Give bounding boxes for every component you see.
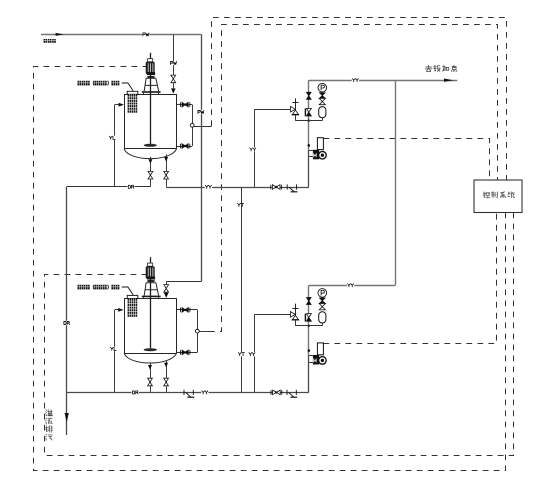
tank T2 dished bottom [124,353,177,363]
pipe: drain header DR from T1 bottom [67,186,151,188]
suction drop P1 [308,150,310,187]
agitator stand (lantern) T2 [144,283,158,296]
signal wire: LG2 level signal to control box top [209,25,498,332]
pipe: PW drop to T1 inlet valve [173,34,175,75]
second isolation valve with handle on P1 riser [305,109,306,117]
pipe: crossover from T1 suction to bottom header [241,187,243,392]
Y-strainer on header [183,390,185,395]
agitator shaft T2 [150,257,152,348]
pump station P1: discharge riser [308,80,310,150]
Y-strainer P1 [286,184,288,189]
stub into T2 [115,309,119,311]
T2 bottom outlet legs with valves [150,363,152,393]
valve V2 on T2 water inlet [164,285,169,293]
level gauge LG1: upper tap [177,104,193,106]
gauge isolation diaphragm+valve P2 [320,298,326,303]
label 溢流排污 (overflow blowdown), vertical [46,410,53,416]
label 去投加点 (to dosing point) [425,65,432,71]
pipe: P1 discharge header to dosing point [309,80,458,82]
metering pump P1 [308,144,311,147]
stub into T1 [115,104,120,106]
Y-strainer P2 [286,390,288,395]
pipe: horizontal to T2 inlet valve [166,281,201,283]
agitator stand (lantern) T1 [144,78,158,91]
wire segment to T1 top [173,83,175,89]
impeller T1 [144,144,157,147]
pipe: PW drop to T2 (crosses suction line) [201,34,203,281]
pipe YL upper segment (T1 nozzle to drain header) [114,105,116,187]
flow arrow into T1 [171,88,176,93]
pipe: industrial water header PW [41,34,201,36]
metering pump P2 [308,349,311,352]
P1 manifold [295,120,322,122]
signal wire: control box to agitator M2 (perimeter route) [45,213,514,456]
level gauge LG1: standpipe and float chamber [192,105,194,146]
flow arrow PW [56,33,64,36]
pipe DR drop on far left [66,187,68,435]
signal wire: control box to agitator M1 (perimeter route) [34,67,506,471]
level gauge LG2: upper tap [177,309,197,311]
pulsation dampener P2 [319,312,326,323]
motor flange T2 [147,280,154,282]
suction drop P2 [308,355,310,392]
signal wire: metering pump P1 to control box [323,139,489,181]
pressure gauge PI P1 [318,83,327,92]
signal wire: metering pump P2 to control box [323,213,496,344]
label 絮凝剂加药口 with leader (T1) [77,80,123,86]
suction valve P2 [273,390,281,395]
pulsation dampener P1 [319,107,326,118]
tank T2: vessel body [124,257,177,363]
valve V1 on T1 water inlet [171,75,176,83]
label 控制系统 (control system) [483,192,490,198]
valve on P2 discharge riser [307,298,312,305]
valve on P1 discharge riser [307,92,312,99]
relief return line P2 [254,314,290,316]
pump station P2: discharge riser [308,285,310,355]
impeller T2 [144,348,157,351]
flow arrow into T1 side nozzle [119,103,124,107]
motor flange T1 [147,76,154,78]
mounting base plate T2 [142,296,161,298]
agitator shaft T1 [150,53,152,144]
control system box 控制系统 [474,180,522,213]
wire: level gauge LG1 to signal riser [194,126,212,128]
pressure gauge PI P2 [318,289,327,298]
pipe: bottom suction/drain header [67,392,309,394]
level gauge LG2: lower tap [177,352,197,354]
suction valve P1 [272,185,280,190]
P2 manifold [295,325,322,327]
label 絮凝剂加药口 with leader (T2) [77,284,123,290]
second isolation valve with handle on P2 riser [305,314,306,322]
tank T1: vessel body [124,53,177,159]
dosing hopper on T1 [127,91,138,94]
flow arrow into T2 side nozzle [118,308,123,312]
flow arrow into T2 [164,293,169,298]
level gauge LG2: standpipe and float chamber [197,310,199,353]
pipe: P1 suction line from T1 [166,187,309,189]
flow arrow to dosing point [444,79,454,82]
pipe: P2 discharge up to header [309,285,396,287]
safety relief valve P2 [295,320,297,326]
label 工业水 (industrial water) [44,39,48,43]
agitator motor M (T1) [148,59,153,62]
arrow to overflow/drain outfall [65,413,69,423]
agitator motor M (T2) [148,263,153,266]
relief return line P1 [254,109,290,111]
pipe YL lower segment (T2 nozzle to bottom header) [114,310,116,393]
level gauge LG1: lower tap [177,146,193,148]
gauge isolation diaphragm+valve P1 [320,93,326,98]
tank T1 dished bottom [124,149,177,159]
safety relief valve P1 [295,115,297,121]
dosing hopper on T2 [127,295,138,298]
mounting base plate T1 [142,91,161,93]
signal wire: LG1 level signal to control box top [212,18,507,181]
T1 bottom outlet legs with valves [150,157,152,187]
